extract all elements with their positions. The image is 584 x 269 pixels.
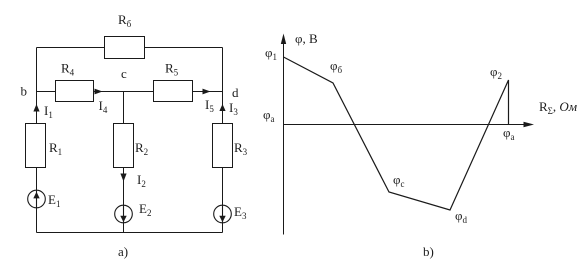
source E2	[115, 205, 133, 223]
svg-text:φ, B: φ, B	[295, 31, 318, 46]
svg-text:b): b)	[423, 244, 434, 259]
current arrow I2	[120, 174, 126, 182]
current arrow I5	[203, 89, 211, 95]
wire: middle vertical branch from node c	[123, 92, 125, 233]
wire: top horizontal from node b column to node d column	[37, 47, 223, 49]
svg-text:RΣ, Ом: RΣ, Ом	[539, 99, 577, 116]
wire: bottom horizontal	[37, 232, 223, 234]
y-axis (phi, B)	[281, 34, 286, 235]
resistor R1	[26, 124, 46, 168]
x-axis (R, Om)	[284, 122, 535, 127]
svg-text:d: d	[232, 85, 239, 100]
wire: middle horizontal b-c-d	[37, 91, 223, 93]
resistor R2	[114, 124, 134, 168]
source E1	[28, 190, 46, 208]
resistor R5	[154, 81, 193, 102]
resistor Rб	[105, 37, 145, 59]
current arrow I3	[219, 104, 225, 111]
svg-text:c: c	[121, 66, 127, 81]
svg-text:a): a)	[118, 244, 128, 259]
current arrow I1	[33, 104, 39, 112]
current arrow I4	[95, 89, 103, 95]
wire: right vertical branch	[222, 48, 224, 233]
wire: left vertical branch	[36, 48, 38, 233]
potential curve	[284, 57, 509, 210]
resistor R4	[56, 81, 94, 102]
resistor R3	[213, 124, 233, 168]
svg-text:b: b	[21, 84, 28, 99]
source E3	[214, 205, 232, 223]
